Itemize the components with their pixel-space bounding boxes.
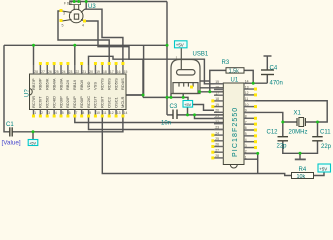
svg-text:20: 20 (89, 70, 93, 74)
IC U7 pins with pads and pin numbers (31, 62, 128, 118)
svg-text:X1: X1 (294, 111, 302, 117)
svg-text:7: 7 (75, 111, 77, 115)
wire C3 left plate to net N$1 (167, 114, 173, 116)
svg-text:+5V: +5V (319, 167, 327, 172)
wire spur to U7 right-side pin (126, 94, 143, 96)
svg-text:22p: 22p (321, 144, 332, 150)
svg-text:2: 2 (41, 111, 43, 115)
node U3 top junction B (77, 0, 80, 3)
svg-text:11: 11 (245, 97, 249, 101)
svg-text:RB3/A: RB3/A (58, 78, 63, 90)
svg-text:1: 1 (176, 56, 178, 60)
svg-text:21: 21 (82, 70, 86, 74)
wire USB1 shield pin drop 2 (182, 94, 184, 98)
wire C1 node down to +5V flag (32, 132, 34, 140)
svg-text:8: 8 (245, 115, 247, 119)
wire ground bus under USB1 (143, 97, 188, 100)
svg-text:16: 16 (215, 86, 219, 90)
wire crystal right node down to C11 (317, 122, 319, 137)
capacitor C4 plates (261, 70, 274, 75)
svg-text:RD1/P: RD1/P (72, 96, 77, 108)
capacitor C12 plates (278, 137, 289, 141)
node USB shield junction 2 (182, 96, 185, 99)
+5V supply flag at C1 (28, 140, 38, 146)
svg-text:6: 6 (69, 111, 71, 115)
svg-text:1.5k: 1.5k (229, 69, 239, 75)
wire USB1 shield pin drop 1 (170, 94, 172, 98)
svg-text:20MHz: 20MHz (289, 130, 308, 136)
svg-text:28: 28 (34, 70, 38, 74)
svg-text:RD4/S: RD4/S (120, 78, 125, 90)
svg-text:RD0/P: RD0/P (79, 96, 84, 108)
wire U3 pin 3 to U7 pin 12 (58, 11, 109, 65)
svg-text:8: 8 (82, 111, 84, 115)
svg-text:27: 27 (215, 148, 219, 152)
U3 pin pads (60, 9, 87, 23)
svg-text:PIC18F2550: PIC18F2550 (232, 107, 239, 157)
svg-text:11: 11 (103, 111, 107, 115)
svg-text:9: 9 (245, 109, 247, 113)
svg-text:13: 13 (245, 85, 249, 89)
node USB shield junction 1 (170, 96, 173, 99)
svg-text:RD6/S: RD6/S (106, 78, 111, 90)
wire drop to ground symbol (299, 153, 301, 158)
svg-text:USB1: USB1 (193, 52, 209, 58)
svg-text:25: 25 (55, 70, 59, 74)
svg-text:16: 16 (117, 70, 121, 74)
svg-text:RC7/R: RC7/R (31, 96, 36, 108)
wire ground bus bottom to R4 (102, 117, 291, 176)
svg-text:18: 18 (215, 97, 219, 101)
svg-text:+5V: +5V (176, 43, 184, 48)
wire U7 bottom pin 9 to U1 pin 24 (89, 117, 224, 130)
+5V supply flag at C3 (183, 101, 193, 108)
node N$1/N$2 cross junction (166, 44, 169, 47)
wire +5V flag stub to C3 net (187, 107, 189, 115)
svg-text:15: 15 (215, 80, 219, 84)
wire C3 right plate to U1 pin 18 (177, 114, 223, 116)
node C1 +5V junction (32, 130, 35, 133)
wire C4 bottom lead (266, 75, 268, 84)
wire R4 right lead to +5V flag (314, 172, 325, 176)
wire U7 right side pin (126, 45, 144, 95)
svg-text:RB6/P: RB6/P (38, 78, 43, 90)
wire U3 pin 5 staircase to U1 MCLR pin 16 (86, 21, 223, 84)
svg-text:RB5/K: RB5/K (45, 78, 50, 90)
svg-text:22: 22 (215, 120, 219, 124)
svg-text:10n: 10n (161, 121, 171, 127)
svg-text:4: 4 (245, 138, 247, 142)
svg-text:RC5/D: RC5/D (45, 96, 50, 108)
IC U1 PIC18F2550 body (223, 83, 244, 165)
node D- at USB (198, 90, 201, 93)
svg-text:5: 5 (62, 24, 64, 28)
node crystal left (281, 121, 284, 124)
+5V supply flag at R4 (318, 164, 331, 172)
wire U1 OSC2 pin 10 loop to crystal right node (244, 101, 327, 122)
svg-text:C11: C11 (320, 130, 331, 136)
wire U3 top-right junction drop (85, 2, 87, 10)
svg-text:9: 9 (89, 111, 91, 115)
wire R3 right lead down to VUSB (244, 70, 253, 83)
svg-text:1: 1 (34, 111, 36, 115)
svg-text:22p: 22p (277, 144, 288, 150)
node oscillator ground junction (299, 152, 302, 155)
+5V supply flag above USB1 (175, 41, 188, 48)
svg-text:10: 10 (245, 103, 249, 107)
svg-text:OSC2: OSC2 (106, 96, 111, 108)
wire C1 right plate to U7 bottom pin 14 (12, 117, 123, 132)
svg-text:RB4/A: RB4/A (51, 78, 56, 90)
node VSS junction (256, 152, 259, 155)
svg-text:RC4/D: RC4/D (51, 96, 56, 108)
svg-text:RD2/P: RD2/P (65, 96, 70, 108)
wire branch down to U1 pin 19 (195, 115, 224, 119)
svg-text:17: 17 (215, 91, 219, 95)
svg-text:24: 24 (62, 70, 66, 74)
svg-text:14: 14 (124, 111, 128, 115)
wire U1 VSS pin 8 to ground bus (244, 153, 258, 173)
svg-text:OSC1: OSC1 (113, 96, 118, 108)
svg-text:RC2/C: RC2/C (86, 96, 91, 108)
svg-text:10: 10 (96, 111, 100, 115)
svg-text:RC6/T: RC6/T (38, 96, 43, 108)
wire R3 left lead down to D- (210, 70, 226, 91)
wire net N$1 vertical x167 down to C3 (166, 2, 168, 115)
wire U1 VSS pin 19 to ground bus (244, 158, 258, 160)
node bus spur junction (142, 94, 145, 97)
svg-text:C1: C1 (6, 122, 14, 128)
svg-text:25: 25 (215, 137, 219, 141)
capacitor C3 plates (173, 110, 177, 120)
node U3 top junction C (85, 0, 88, 3)
node N$1 ground-bus cross (166, 96, 169, 99)
wire U1 OSC1 pin 9 to crystal left node (244, 112, 297, 122)
node D- R3 junction (208, 90, 211, 93)
svg-text:470n: 470n (270, 81, 283, 87)
wire net N$2 long horizontal y45 (4, 44, 167, 46)
svg-text:RB7/P: RB7/P (31, 78, 36, 90)
capacitor C11 plates (312, 137, 323, 141)
svg-text:RD5/S: RD5/S (113, 78, 118, 90)
svg-text:28: 28 (215, 154, 219, 158)
svg-text:RC0/T: RC0/T (100, 96, 105, 108)
component U3 value box (64, 1, 81, 6)
svg-text:20: 20 (215, 109, 219, 113)
svg-text:23: 23 (215, 126, 219, 130)
connector USB1 symbol (171, 48, 200, 94)
resistor R4 10k (292, 167, 314, 180)
svg-text:RD7/S: RD7/S (100, 78, 105, 90)
svg-text:26: 26 (215, 143, 219, 147)
crystal X1 (297, 118, 305, 127)
wire USB1 D- to U1 pin 18 (200, 91, 224, 93)
svg-text:3: 3 (245, 144, 247, 148)
svg-text:19: 19 (96, 70, 100, 74)
svg-text:VDD: VDD (86, 81, 91, 90)
svg-text:RD3/P: RD3/P (58, 96, 63, 108)
node C3 branch junction (193, 113, 196, 116)
svg-text:14: 14 (245, 79, 249, 83)
svg-text:2: 2 (245, 150, 247, 154)
IC U1 pins with pads and pin numbers (211, 79, 257, 159)
node N$2 at U7 pin 7 (73, 44, 76, 47)
svg-text:RB0/I: RB0/I (79, 80, 84, 90)
capacitor C1 plates (10, 127, 12, 136)
wire U7 bottom pin 7 to U1 pin 23 (75, 117, 224, 123)
node crystal right (316, 121, 319, 124)
node N$2 at U7 pin 1 (32, 44, 35, 47)
svg-text:6: 6 (245, 126, 247, 130)
svg-text:4: 4 (55, 111, 57, 115)
node C3 right junction (186, 113, 189, 116)
node U3 top junction A (73, 0, 76, 3)
svg-text:[Value]: [Value] (2, 140, 21, 147)
wire C4 top lead (266, 56, 268, 70)
svg-text:12: 12 (245, 91, 249, 95)
wire U7 pin 9 staircase down to bus net (89, 56, 144, 97)
resistor R3 1.5k (222, 60, 245, 75)
svg-text:19: 19 (215, 103, 219, 107)
wire +5V flag to U1 pin 17 (193, 105, 214, 111)
svg-text:3: 3 (63, 12, 65, 16)
wire C4 top end tick (264, 55, 272, 57)
svg-text:21: 21 (215, 114, 219, 118)
svg-text:+5V: +5V (29, 141, 36, 145)
svg-text:C4: C4 (270, 66, 278, 72)
svg-text:RC1/T: RC1/T (93, 96, 98, 108)
svg-text:24: 24 (215, 131, 219, 135)
svg-text:U1: U1 (231, 78, 239, 84)
svg-text:13: 13 (117, 111, 121, 115)
svg-text:MCLR: MCLR (120, 97, 125, 108)
svg-text:RB1/I: RB1/I (72, 80, 77, 90)
svg-text:1: 1 (245, 155, 247, 159)
svg-text:R4: R4 (299, 167, 307, 173)
wire USB1 VCC to R3 column (200, 80, 210, 82)
svg-text:18: 18 (103, 70, 107, 74)
svg-text:17: 17 (110, 70, 114, 74)
svg-text:7: 7 (245, 120, 247, 124)
svg-text:26: 26 (48, 70, 52, 74)
svg-text:10k: 10k (297, 174, 306, 180)
wire U7 pin 1 up to net N$2 (33, 45, 35, 65)
svg-text:22: 22 (75, 70, 79, 74)
svg-text:23: 23 (69, 70, 73, 74)
wire C12/C11 bottom join (283, 141, 318, 153)
svg-text:3: 3 (48, 111, 50, 115)
svg-text:27: 27 (41, 70, 45, 74)
svg-text:+5V: +5V (184, 102, 192, 107)
U3 pin numbers 3 5 4 (62, 12, 85, 28)
svg-text:5: 5 (245, 132, 247, 136)
svg-text:C3: C3 (170, 104, 178, 110)
IC U1 notch (230, 165, 237, 169)
svg-text:U3: U3 (88, 4, 96, 10)
junction dots (net joins) (32, 0, 320, 155)
wire U1 VUSB pin 14 to C4 (244, 82, 267, 84)
component U3 symbol body (TO-case transistor) (62, 5, 85, 23)
wire U3 pin 4 staircase to U7 pin 14 (85, 9, 123, 65)
svg-text:RB2/I: RB2/I (65, 80, 70, 90)
svg-text:5: 5 (62, 111, 64, 115)
svg-text:R3: R3 (222, 60, 230, 66)
svg-text:VSS: VSS (93, 82, 98, 90)
IC U7 (microcontroller, DIP-28 horizontal) body (30, 74, 127, 110)
wire net N$2 left vertical down to C1 (4, 45, 10, 132)
wire USB1 D+ to U1 pin 17 (200, 87, 224, 89)
svg-text:U?: U? (25, 89, 31, 97)
wire U7 pin 7 up to net N$2 (74, 45, 76, 65)
wire net N$1 top horizontal from U3 to x167 (70, 1, 167, 3)
ground symbol GND (295, 158, 306, 160)
svg-text:12: 12 (110, 111, 114, 115)
svg-text:4: 4 (82, 24, 84, 28)
wire crystal left node down to C12 (282, 122, 284, 137)
svg-text:C12: C12 (267, 130, 279, 136)
svg-text:15: 15 (124, 70, 128, 74)
svg-text:F Dat: F Dat (64, 1, 72, 5)
node VUSB junction (252, 82, 255, 85)
